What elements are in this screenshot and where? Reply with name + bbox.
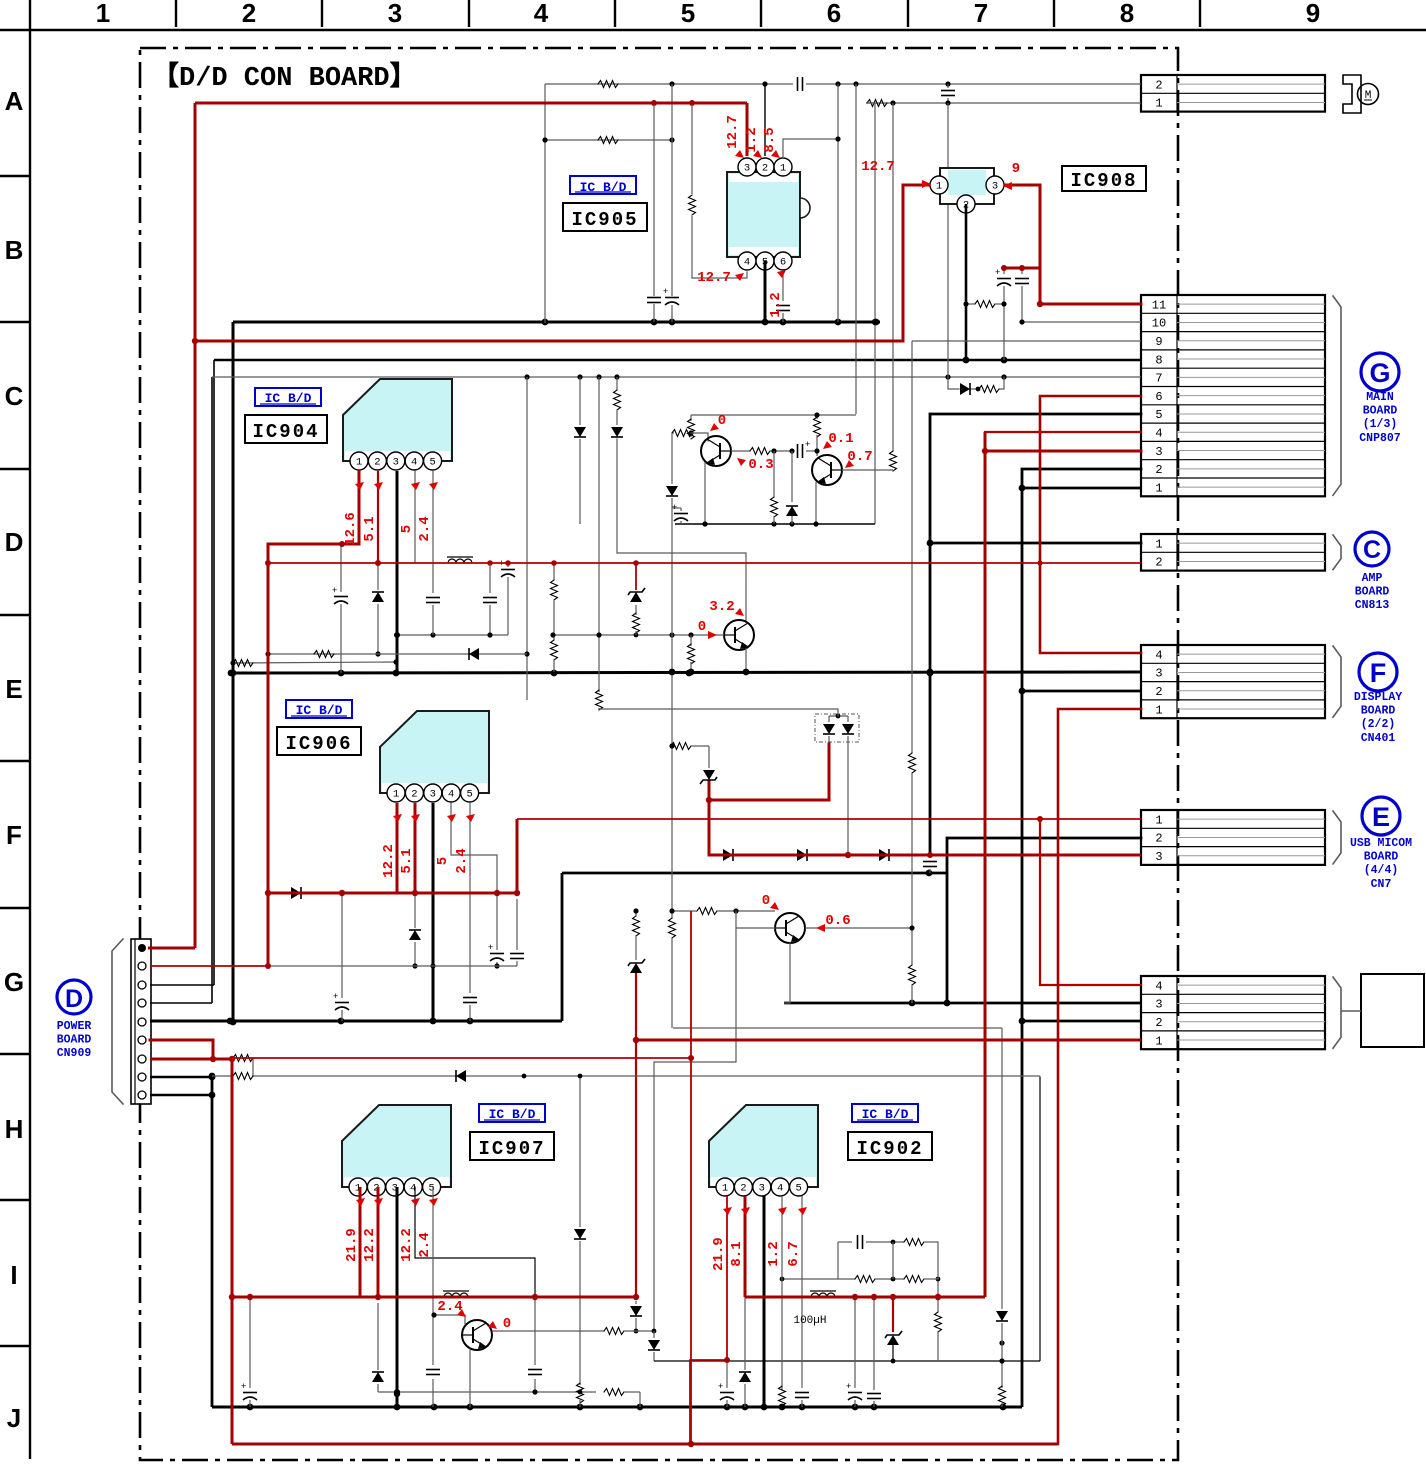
board outline frame (dash-dot) <box>140 48 1178 1460</box>
wire column x=599 <box>598 377 600 692</box>
node junction x=985 y=451 <box>982 448 988 454</box>
pin 2 <box>756 158 774 176</box>
capacitor <box>798 444 803 458</box>
pin 5 <box>756 252 774 270</box>
capacitor <box>647 298 661 303</box>
svg-text:2: 2 <box>242 0 256 28</box>
resistor <box>814 417 821 437</box>
wire D pin9 black <box>150 1094 212 1097</box>
component box bottom right <box>1361 974 1424 1047</box>
grid row letters <box>4 86 24 1433</box>
svg-text:CN813: CN813 <box>1355 599 1390 612</box>
electrolytic capacitor <box>241 1381 257 1400</box>
wire C pin1 riser to GND bus <box>929 543 932 855</box>
wire Q907 emitter <box>469 1349 471 1407</box>
resistor <box>979 386 999 393</box>
svg-text:2: 2 <box>374 457 380 469</box>
svg-text:4: 4 <box>1155 979 1162 993</box>
svg-text:(4/4): (4/4) <box>1364 864 1399 877</box>
wire 8V y=1297 IC902 segment <box>745 1296 985 1299</box>
node junction y=819 x=1040 <box>1037 816 1043 822</box>
electrolytic capacitor <box>995 267 1011 286</box>
connector brace <box>1333 296 1341 495</box>
capacitor between motor lines <box>941 91 955 96</box>
zener diode <box>700 770 717 784</box>
wire red 12V bus y=1040 to bottom conn pin1 <box>636 1039 1141 1042</box>
svg-text:7: 7 <box>974 0 988 28</box>
wire 12.7V net y=341 <box>195 340 903 343</box>
svg-text:9: 9 <box>1306 0 1320 28</box>
voltage labels Q3 <box>698 599 744 639</box>
wire CNP807 pin10 gray <box>1022 321 1141 323</box>
svg-text:3: 3 <box>1155 998 1162 1012</box>
diode IC904 pin2 column <box>377 563 379 590</box>
svg-text:B: B <box>5 235 24 265</box>
svg-text:2: 2 <box>1155 78 1162 92</box>
motor M1 <box>1358 84 1379 105</box>
resistor <box>672 430 692 437</box>
pin 4 <box>771 1178 789 1196</box>
IC906 body <box>380 711 489 793</box>
wire 0.6 gray y=1028 <box>673 1027 1002 1029</box>
svg-text:IC905: IC905 <box>571 209 638 231</box>
wire Q1 emitter down <box>704 462 706 524</box>
resistor <box>598 81 618 88</box>
capacitor <box>426 1370 440 1375</box>
resistor <box>551 640 558 660</box>
wire GND bus y=322 <box>233 321 880 324</box>
connector brace <box>1333 535 1341 570</box>
svg-text:+: + <box>718 1381 723 1391</box>
capacitor x=517 <box>516 899 518 950</box>
wire motor pin2 gray y=84 right <box>806 83 1141 85</box>
wire red riser x=517 <box>516 819 519 893</box>
transistor Q4 <box>775 913 805 943</box>
diode <box>666 486 678 496</box>
feedback row y=1242 <box>838 1241 852 1243</box>
pin 2 <box>734 1178 752 1196</box>
wire D pin7 red <box>150 1058 232 1061</box>
electrolytic x=342 IC906 <box>341 893 343 998</box>
wire IC904 pin2 5.1V <box>377 471 379 563</box>
resistor <box>975 301 995 308</box>
voltage labels IC907 pins <box>344 1198 438 1262</box>
svg-text:0: 0 <box>762 893 770 909</box>
svg-text:3: 3 <box>992 181 998 193</box>
wire IC902 pin2 8.1V <box>744 1196 747 1297</box>
wire IC902 pin1 21.9V thin <box>726 1196 728 1360</box>
svg-text:E: E <box>1372 802 1390 832</box>
wire Q3 collector path <box>617 439 746 622</box>
diode <box>960 383 970 395</box>
transistor Q3 <box>724 620 754 650</box>
node junction y=563 <box>375 560 381 566</box>
pin 4 <box>442 784 460 802</box>
wire IC905 pin6 <box>782 272 784 301</box>
IC906 label box IC B/D <box>286 700 352 718</box>
svg-text:5: 5 <box>399 525 415 533</box>
wire x=838 <box>837 84 839 322</box>
svg-text:21.9: 21.9 <box>711 1237 727 1271</box>
node junction x=397 y=1394 <box>394 1391 400 1397</box>
transistor Q5 <box>462 1320 492 1350</box>
svg-text:1: 1 <box>936 181 942 193</box>
resistor <box>551 580 558 600</box>
svg-text:0.6: 0.6 <box>825 913 850 929</box>
svg-text:8.1: 8.1 <box>729 1241 745 1266</box>
wire IC906 pin1 12.2V <box>396 803 399 893</box>
connector D pin contacts <box>138 944 146 1099</box>
wire riser x=947 <box>946 873 949 1003</box>
svg-text:6: 6 <box>780 257 786 269</box>
wire IC906 pin2 5.1V <box>414 803 417 893</box>
wire IC902 pin4 <box>781 1196 783 1390</box>
electrolytic capacitor <box>718 1381 734 1400</box>
wire red x=691 <box>690 911 692 1444</box>
resistor <box>596 690 603 710</box>
wire column x=672 <box>671 433 673 484</box>
wire 5V net y=563 to CN813 pin2 <box>268 562 1141 564</box>
node junctions y=1297 IC902 <box>852 1294 858 1300</box>
svg-text:CN401: CN401 <box>1361 732 1396 745</box>
svg-text:10: 10 <box>1152 317 1166 331</box>
transistor Q2 <box>812 455 842 485</box>
svg-text:E: E <box>5 674 22 704</box>
node junction y=103 <box>890 100 895 105</box>
wire IC904 pin3 ground <box>396 471 399 673</box>
resistor <box>688 644 695 664</box>
wire 12.7V to IC908 pin1 <box>903 185 929 341</box>
pin 1 <box>387 784 405 802</box>
wire IC902 pin5 <box>801 1196 803 1388</box>
zener x=636 <box>635 563 637 590</box>
svg-text:1: 1 <box>1155 813 1162 827</box>
pin 3 <box>753 1178 771 1196</box>
resistor <box>614 390 621 410</box>
wire 5V to CN7 pin1 y=819 <box>517 818 1141 820</box>
electrolytic x=727 IC902 <box>726 1360 728 1388</box>
diode <box>630 1306 642 1316</box>
diode <box>879 849 889 861</box>
transistor Q1 <box>701 436 731 466</box>
node junction y=855 <box>845 852 851 858</box>
connector 2-pin <box>1141 75 1325 112</box>
wire gray riser x=912 <box>911 341 913 753</box>
pin 5 <box>790 1178 808 1196</box>
node junctions y=377 <box>945 374 950 379</box>
wire x=1040 riser <box>1039 1077 1041 1361</box>
resistor <box>577 1383 584 1403</box>
node junction x=709 y=800 <box>706 797 712 803</box>
svg-text:1.2: 1.2 <box>744 127 760 152</box>
node 12.7V junction <box>192 338 198 344</box>
diode <box>291 887 301 899</box>
wire y=1361 <box>654 1360 1040 1362</box>
wire cap to pin1 line <box>947 84 949 88</box>
wire D pin6 red <box>150 1040 213 1059</box>
wire diode row y=855 to CN7 pin3 <box>709 854 1141 857</box>
svg-text:0.1: 0.1 <box>828 431 853 447</box>
diode x=378 below IC907 pin2 <box>377 1303 379 1370</box>
resistor <box>671 743 691 750</box>
wire GND bus y=1407 <box>212 1406 1022 1409</box>
wire D pin3 black <box>150 984 214 986</box>
capacitor <box>510 954 524 959</box>
pin 1 <box>774 158 792 176</box>
zener D x=709 <box>708 746 710 768</box>
electrolytic x=497 <box>496 893 498 950</box>
IC905 label box IC B/D <box>570 176 636 195</box>
svg-text:J: J <box>7 1403 21 1433</box>
wire bottom red bus y=1444 <box>232 1443 1058 1446</box>
resistor x=912 low <box>911 928 913 965</box>
node junctions y=84 <box>669 81 674 86</box>
wire Q1 base to 0.3 <box>731 450 750 452</box>
voltage labels IC904 pins <box>343 482 438 546</box>
wire D pin2 <box>150 965 268 967</box>
svg-text:0: 0 <box>718 413 726 429</box>
diode column x=580 <box>579 1076 581 1227</box>
wire Q2 base 0.7 <box>842 469 893 471</box>
wire black bus x=1022 <box>1021 488 1024 1407</box>
wire Q4 collector 0.6 <box>805 927 912 929</box>
wire zener stub IC902 <box>892 1297 894 1332</box>
resistor chain x=554 <box>553 563 555 580</box>
resistor x=938 <box>937 1279 939 1312</box>
wire 21V net y=1058 <box>232 1057 691 1059</box>
electrolytic capacitor <box>499 558 515 577</box>
wire 1076 corner <box>1039 1076 1041 1077</box>
wire CNP807 pin5 to CN813 pin1 <box>930 414 1141 543</box>
pin 4 <box>738 252 756 270</box>
svg-text:1: 1 <box>722 1183 728 1195</box>
svg-text:USB MICOM: USB MICOM <box>1350 837 1412 850</box>
svg-text:4: 4 <box>777 1183 783 1195</box>
voltage labels IC905 bottom <box>697 270 786 318</box>
pin 5 <box>423 1178 441 1196</box>
node junction y=140 <box>542 137 547 142</box>
wire row y=635 left <box>397 634 508 636</box>
wire GND bus y=873 <box>562 872 947 875</box>
resistor <box>604 1389 624 1396</box>
wire Q3 base row y=635 <box>553 634 724 636</box>
svg-text:12.7: 12.7 <box>697 270 731 286</box>
svg-text:CNP807: CNP807 <box>1359 432 1401 445</box>
svg-text:11: 11 <box>1152 298 1166 312</box>
pin 1 <box>350 452 368 470</box>
svg-text:8: 8 <box>1120 0 1134 28</box>
node junctions x=212 <box>209 1074 216 1081</box>
pin 2 <box>405 784 423 802</box>
resistor <box>935 1312 942 1332</box>
IC908 body <box>940 168 994 204</box>
electrolytic x=508 <box>507 563 509 567</box>
IC907 label box IC B/D <box>479 1104 545 1122</box>
IC902 label box IC B/D <box>852 1104 918 1122</box>
svg-text:12.7: 12.7 <box>725 115 741 149</box>
wire red x=1040 to bottom conn pin4 <box>1040 819 1141 985</box>
capacitor x=490 <box>489 563 491 593</box>
svg-text:3: 3 <box>1155 667 1162 681</box>
voltage labels IC905 top <box>725 115 780 158</box>
wire IC907 pin2 12.2V <box>377 1187 380 1297</box>
wire bottom conn pin3 black <box>784 1002 1141 1005</box>
node junction x=268 y=966 <box>265 963 271 969</box>
diode <box>372 592 384 602</box>
wire thin bus x=214 <box>213 360 215 985</box>
svg-text:POWER: POWER <box>57 1020 92 1033</box>
svg-text:3: 3 <box>759 1183 765 1195</box>
electrolytic capacitor <box>846 1381 862 1400</box>
wire zener feed from photocoupler <box>709 744 829 800</box>
svg-text:3: 3 <box>1155 445 1162 459</box>
svg-text:+: + <box>663 286 668 296</box>
svg-text:2.4: 2.4 <box>417 1232 433 1257</box>
IC904 body <box>343 379 452 461</box>
svg-text:5: 5 <box>1155 408 1162 422</box>
wire to CNP807 pin9 y=341 gray <box>912 340 1141 342</box>
IC902 reference label <box>848 1132 932 1160</box>
wire photocoupler right diode down <box>847 744 849 855</box>
svg-text:BOARD: BOARD <box>57 1034 92 1047</box>
node junction x=1022 y=691 <box>1019 688 1026 695</box>
svg-text:12.7: 12.7 <box>861 159 895 175</box>
node junctions y=1003 <box>909 1000 916 1007</box>
wire bus y=360 to CNP807 pin8 <box>214 359 1141 362</box>
wire 12.7V net vertical x=195 <box>194 103 197 948</box>
resistor <box>633 613 640 633</box>
svg-text:3.2: 3.2 <box>709 599 734 615</box>
node junction x=691 <box>688 1055 694 1061</box>
wire diode-resistor branch y=389 <box>948 377 959 389</box>
resistor y=663 <box>233 662 396 663</box>
svg-text:2: 2 <box>1155 556 1162 570</box>
svg-text:F: F <box>6 820 22 850</box>
electrolytic capacitor <box>488 942 504 961</box>
svg-text:+: + <box>333 991 338 1001</box>
electrolytic x=855 <box>854 1297 856 1388</box>
svg-text:3: 3 <box>430 789 436 801</box>
wire GND riser x=212 lower <box>211 1077 214 1407</box>
wire red bus x=985 IC902 output <box>984 432 987 1297</box>
label E USB MICOM BOARD <box>1350 797 1412 891</box>
resistor <box>904 1239 924 1246</box>
svg-text:8: 8 <box>1155 353 1162 367</box>
wire IC905 pin4 <box>692 272 747 278</box>
wire gray riser x=948 <box>947 103 949 167</box>
wire x=692 with resistor <box>691 103 693 194</box>
pin 4 <box>404 1178 422 1196</box>
svg-text:H: H <box>5 1114 24 1144</box>
wire red CN401 pin1 x=1058 <box>1058 709 1141 1444</box>
resistor <box>633 916 640 936</box>
resistor <box>779 1386 786 1406</box>
wire GND bus y=673 to CN401 pin3 <box>231 672 1141 673</box>
svg-text:BOARD: BOARD <box>1364 851 1399 864</box>
motor bracket <box>1343 75 1361 113</box>
svg-text:1: 1 <box>1155 1034 1162 1048</box>
wire resistor loop x=545 <box>544 84 546 323</box>
pin 3 <box>386 1178 404 1196</box>
pin 3 <box>738 158 756 176</box>
diode <box>996 1311 1008 1321</box>
capacitor <box>426 598 440 603</box>
svg-text:4: 4 <box>1155 648 1162 662</box>
svg-text:IC B/D: IC B/D <box>580 180 627 195</box>
wire GND bus y=1021 D pin5 <box>150 1020 562 1023</box>
connector brace <box>1333 646 1341 717</box>
svg-text:+: + <box>995 267 1000 277</box>
svg-text:IC904: IC904 <box>252 421 319 443</box>
svg-text:DISPLAY: DISPLAY <box>1354 691 1402 704</box>
resistor <box>697 908 717 915</box>
svg-text:100µH: 100µH <box>793 1315 826 1327</box>
resistor x=774 <box>773 451 775 497</box>
pin 2 <box>957 195 975 213</box>
wire y=1076 long gray <box>252 1075 1040 1077</box>
wire 12.6V vertical x=268 to D pin2 <box>267 544 270 966</box>
svg-text:F: F <box>1370 658 1387 688</box>
wire bottom conn pin2 black <box>1022 1020 1141 1023</box>
electrolytic capacitor <box>663 286 679 305</box>
svg-text:6: 6 <box>1155 390 1162 404</box>
wire connector to box <box>1341 1010 1361 1012</box>
svg-text:9: 9 <box>1012 161 1020 177</box>
diode <box>409 930 421 940</box>
svg-text:5.1: 5.1 <box>399 848 415 873</box>
label F DISPLAY BOARD <box>1354 653 1402 745</box>
svg-text:2.4: 2.4 <box>454 848 470 873</box>
svg-text:0: 0 <box>503 1316 511 1332</box>
grid column numbers <box>96 0 1320 28</box>
svg-text:BOARD: BOARD <box>1355 586 1390 599</box>
wire 21.9V y=1360 <box>690 1360 727 1444</box>
electrolytic x=341 <box>340 544 342 592</box>
electrolytic capacitor <box>333 991 349 1010</box>
wire IC904 pin4 <box>414 471 416 562</box>
voltage labels IC902 pins <box>711 1207 807 1271</box>
svg-text:2: 2 <box>1155 463 1162 477</box>
capacitor pair at IC908 output <box>1003 268 1005 274</box>
node junctions y=673 <box>228 670 235 677</box>
svg-text:3: 3 <box>744 163 750 175</box>
resistors x=636 <box>635 911 637 916</box>
wire CN7 pin2 black <box>947 838 1141 873</box>
svg-text:【D/D CON BOARD】: 【D/D CON BOARD】 <box>152 61 417 94</box>
svg-text:C: C <box>1363 536 1381 564</box>
resistor <box>999 1386 1006 1406</box>
diode <box>456 1070 466 1082</box>
svg-text:+: + <box>846 1381 851 1391</box>
svg-text:2: 2 <box>762 163 768 175</box>
connector D brace <box>112 939 123 1104</box>
svg-text:BOARD: BOARD <box>1363 405 1398 418</box>
svg-text:9: 9 <box>1155 335 1162 349</box>
node junction x=727 y=1360 <box>724 1357 730 1363</box>
electrolytic capacitor <box>332 585 348 604</box>
svg-text:4: 4 <box>411 457 417 469</box>
node junction caps top <box>1001 265 1007 271</box>
wire Q2 emitter down <box>815 482 817 524</box>
resistor <box>909 965 916 985</box>
wire x=654 riser <box>653 103 655 296</box>
node junction x=233 <box>230 670 237 677</box>
diode <box>648 1340 660 1350</box>
wire x=535 to cap <box>534 1297 536 1365</box>
diode x=654 <box>653 1331 655 1338</box>
node junctions y=360 <box>963 357 970 364</box>
diode <box>739 1372 751 1382</box>
